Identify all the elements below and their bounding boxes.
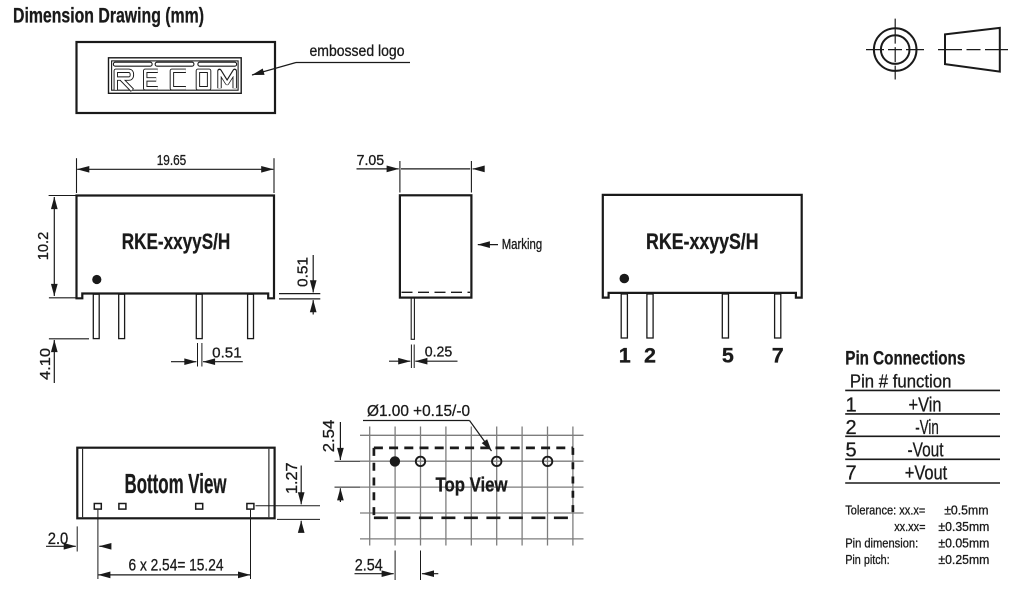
svg-text:1: 1	[846, 395, 857, 417]
bottom view pad 5	[196, 504, 203, 510]
right view pins	[621, 294, 781, 338]
dim 1.27 upper arrow	[300, 466, 302, 505]
svg-text:1: 1	[619, 344, 631, 368]
right view body outline	[603, 195, 802, 298]
svg-text:Pin dimension:: Pin dimension:	[845, 535, 918, 550]
dim 19.65 line	[77, 168, 273, 170]
svg-text:2: 2	[644, 344, 656, 368]
svg-text:Top View: Top View	[436, 473, 508, 496]
projection symbol outer circle	[874, 28, 917, 71]
svg-text:±0.05mm: ±0.05mm	[938, 535, 989, 550]
svg-text:7: 7	[846, 462, 857, 484]
side view pin	[411, 298, 414, 340]
svg-text:2: 2	[846, 417, 857, 439]
side view body	[400, 195, 472, 297]
bottom view pad 7	[247, 504, 254, 510]
pin2 column extension	[420, 551, 422, 581]
table rules	[845, 390, 1000, 483]
hole label leader arrow	[470, 421, 492, 452]
pin1 column extension	[394, 551, 396, 581]
svg-text:Pin # function: Pin # function	[850, 371, 952, 391]
svg-text:+Vin: +Vin	[909, 395, 942, 417]
right view pin1 dot	[620, 274, 630, 284]
logo top bar 3	[198, 62, 237, 66]
hole label underline	[363, 420, 470, 422]
svg-text:Marking: Marking	[502, 237, 543, 253]
svg-text:19.65: 19.65	[157, 153, 187, 169]
logo letters RECOM (outlined)	[116, 71, 235, 91]
top view pin7 hole	[543, 457, 552, 466]
dim 2.54 vertical lower arrow	[339, 488, 341, 502]
svg-text:Bottom View: Bottom View	[125, 468, 227, 499]
svg-text:Pin Connections: Pin Connections	[845, 348, 965, 369]
front view pins	[93, 294, 253, 338]
svg-text:embossed logo: embossed logo	[310, 43, 405, 60]
pad1 extension line	[97, 510, 99, 579]
top view grid vertical lines	[370, 427, 573, 546]
svg-text:0.25: 0.25	[425, 345, 453, 361]
dim 2.54 bottom right arrow	[422, 573, 438, 575]
dim 2.54 bottom left arrow	[355, 573, 394, 575]
svg-text:Pin pitch:: Pin pitch:	[845, 552, 890, 567]
dim 2.54 vertical extension lines	[335, 460, 361, 462]
svg-text:5: 5	[722, 344, 734, 368]
top view pin5 hole	[492, 457, 501, 466]
dim 1.27 extension line at box bottom	[277, 518, 320, 520]
side view dashed marking line	[402, 291, 471, 293]
dim 7.05 right arrow	[473, 168, 483, 170]
dim 4.10 lower arrow	[53, 340, 55, 383]
dim 2.0 left arrow	[46, 545, 76, 547]
projection symbol crosshair horizontal	[866, 49, 925, 51]
logo frame outer	[109, 58, 242, 94]
leader underline for embossed logo	[296, 62, 410, 64]
dim 0.51 standoff upper arrow	[312, 255, 314, 292]
svg-text:±0.5mm: ±0.5mm	[944, 502, 988, 517]
dim 0.51 standoff extension lines	[279, 293, 320, 295]
package top face with embossed logo	[77, 42, 276, 113]
projection symbol cone	[945, 28, 1000, 72]
top view pin1 hole (filled)	[390, 456, 400, 466]
dim 19.65 extension lines	[76, 158, 78, 193]
svg-text:0.51: 0.51	[294, 257, 311, 287]
svg-text:4.10: 4.10	[37, 348, 54, 380]
dim 0.25 left arrow	[389, 360, 410, 362]
logo top bar 1	[113, 62, 152, 66]
dim 0.51 pin width left arrow	[171, 361, 196, 363]
dim 0.25 extension lines	[410, 345, 412, 369]
dim 2.54 vertical upper arrow	[339, 422, 341, 460]
bottom view inner edge left	[82, 449, 84, 517]
dim 1.27 extension line at pad row	[256, 505, 321, 507]
svg-text:7.05: 7.05	[357, 153, 385, 169]
svg-text:xx.xx=: xx.xx=	[894, 519, 926, 534]
dim 7.05 middle segment	[401, 168, 470, 170]
dim 4.10 extension line at pin end	[49, 338, 89, 340]
bottom view body	[77, 448, 274, 519]
svg-text:1.27: 1.27	[284, 462, 301, 494]
svg-text:+Vout: +Vout	[905, 462, 948, 484]
svg-text:2.54: 2.54	[321, 419, 338, 452]
dim 0.25 right arrow	[415, 360, 457, 362]
svg-text:2.0: 2.0	[48, 530, 69, 548]
dim 0.51 pin width right arrow	[203, 361, 243, 363]
bottom view pad 2	[119, 504, 126, 510]
dim 7.05 left arrow	[357, 168, 399, 170]
svg-text:7: 7	[772, 344, 784, 368]
front view pin1 dot	[92, 275, 101, 284]
dim 10.2 extension lines	[49, 195, 76, 197]
svg-text:-Vin: -Vin	[915, 417, 939, 439]
svg-text:RKE-xxyyS/H: RKE-xxyyS/H	[122, 229, 231, 254]
top view dashed outline	[374, 448, 573, 518]
dim 7.05 extension lines	[399, 161, 401, 193]
svg-text:±0.25mm: ±0.25mm	[938, 552, 989, 567]
projection symbol crosshair vertical	[894, 19, 896, 80]
Marking label arrow	[478, 244, 498, 246]
dim 10.2 line	[53, 197, 55, 296]
svg-text:6 x 2.54= 15.24: 6 x 2.54= 15.24	[129, 556, 224, 574]
top view pin2 hole	[416, 457, 425, 466]
svg-text:RKE-xxyyS/H: RKE-xxyyS/H	[646, 229, 759, 254]
dim 1.27 lower arrow	[300, 521, 302, 531]
dim 2.0 right arrow	[99, 545, 111, 547]
svg-text:5: 5	[846, 439, 857, 461]
logo top bar 2	[155, 62, 194, 66]
svg-text:-Vout: -Vout	[908, 439, 944, 461]
svg-text:Tolerance: xx.x=: Tolerance: xx.x=	[845, 502, 925, 517]
leader arrow to logo	[252, 63, 296, 76]
bottom view pad 1	[94, 504, 101, 510]
top view grid horizontal lines	[360, 435, 584, 539]
svg-text:2.54: 2.54	[355, 557, 383, 575]
dim 0.51 standoff lower arrow	[312, 300, 314, 314]
box left extension line	[76, 526, 78, 551]
svg-text:Dimension Drawing (mm): Dimension Drawing (mm)	[13, 4, 204, 28]
dim 0.51 pin width extension lines	[197, 343, 199, 367]
pad7 extension line	[250, 510, 252, 579]
projection symbol inner circle	[881, 35, 910, 64]
projection symbol cone centerline	[938, 49, 1008, 51]
dim 15.24 line	[98, 574, 250, 576]
svg-text:10.2: 10.2	[35, 232, 52, 261]
front view body outline	[77, 196, 275, 299]
bottom view inner edge right	[268, 449, 270, 517]
svg-text:0.51: 0.51	[212, 345, 242, 361]
svg-text:±0.35mm: ±0.35mm	[938, 519, 989, 534]
svg-text:Ø1.00 +0.15/-0: Ø1.00 +0.15/-0	[367, 403, 470, 420]
logo frame inner	[112, 61, 239, 90]
